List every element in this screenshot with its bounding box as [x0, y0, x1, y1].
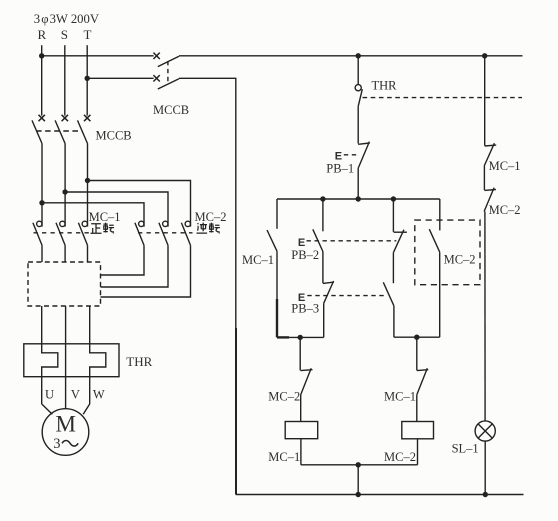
- wire lamp to bottom rail: [484, 441, 486, 494]
- wire forward branch bottom bar: [277, 336, 324, 338]
- svg-text:MC–1: MC–1: [384, 390, 416, 404]
- wire MC-2 pole3 down and left to swap box: [101, 245, 191, 297]
- wire to MC-1 interlock: [416, 337, 418, 370]
- svg-text:V: V: [71, 388, 80, 402]
- label seiten (forward) kanji: [91, 223, 115, 234]
- contactor MC-1 pole1 terminal circle: [37, 221, 42, 226]
- wire phase S drop: [64, 45, 66, 115]
- contactor MC-1 interlock b-contact bar: [417, 369, 429, 372]
- contactor MC-2 interlock b-contact bar: [300, 369, 312, 372]
- breaker MCCB2 pole 2 blade: [158, 79, 179, 89]
- contactor MC-2 aux enclosure (dashed box): [415, 220, 480, 285]
- contactor MC-2 b-contact bar (lamp branch): [484, 189, 496, 192]
- node reverse bottom bar: [414, 335, 419, 340]
- contactor MC-1 pole3 terminal circle: [82, 221, 87, 226]
- breaker MCCB1 pole R blade: [32, 120, 42, 143]
- breaker MCCB2 mechanical link (dashed): [167, 61, 169, 84]
- coil MC-1: [285, 422, 318, 439]
- node coil junction: [356, 462, 361, 467]
- svg-text:T: T: [84, 27, 92, 42]
- svg-text:R: R: [38, 27, 47, 42]
- lamp cross stroke 2: [478, 424, 492, 438]
- svg-text:3: 3: [53, 436, 60, 452]
- wire coil junction to bottom rail: [357, 465, 359, 495]
- svg-text:MC–1: MC–1: [242, 253, 274, 267]
- wire PB-1 to parallel rail: [357, 168, 359, 200]
- contactor MC-2 b-contact blade (lamp branch): [484, 188, 494, 212]
- wire coil MC-2 to junction bar: [417, 439, 419, 465]
- breaker MCCB1 pole S blade: [55, 120, 65, 143]
- motor AC wave symbol: [62, 441, 78, 447]
- svg-text:MC–1: MC–1: [489, 159, 521, 173]
- svg-text:PB–2: PB–2: [291, 248, 319, 262]
- wire R MCCB1 to MC-1 pole1: [41, 144, 43, 227]
- svg-text:MC–2: MC–2: [384, 450, 416, 464]
- wire PB-2 b to PB-3 a: [392, 253, 394, 284]
- svg-text:E: E: [335, 150, 342, 162]
- THR b-contact blade: [358, 89, 362, 106]
- svg-text:MCCB: MCCB: [96, 129, 132, 143]
- contactor MC-1 mechanical link (dashed): [34, 232, 90, 234]
- wire bottom rail: [236, 494, 524, 496]
- wire rail down to MC-1 aux contact: [276, 199, 278, 229]
- wire W lead into motor: [83, 404, 90, 414]
- contactor MC-1 pole3 blade: [78, 223, 87, 246]
- svg-text:MC–2: MC–2: [444, 253, 476, 267]
- svg-text:W: W: [93, 388, 105, 402]
- phase swap junction box (dashed): [28, 262, 101, 306]
- wire MC-1 pole2 down to swap box: [64, 245, 66, 262]
- wire T to MC-2 pole3: [88, 181, 191, 227]
- contactor MC-1 pole1 blade: [33, 223, 42, 246]
- breaker MCCB1 pole T terminal x: [84, 115, 90, 121]
- wire PB-3 a to reverse bottom bar: [393, 306, 395, 337]
- svg-text:U: U: [45, 388, 54, 402]
- breaker MCCB2 pole 2 terminal x: [153, 75, 159, 81]
- wire lamp branch upper: [484, 56, 486, 146]
- pushbutton PB-3 blade: [324, 281, 334, 303]
- wire lamp branch to lamp: [484, 212, 486, 421]
- wire MC-1 pole3 down to swap box: [87, 245, 89, 262]
- breaker MCCB2 pole 1 terminal x: [153, 53, 159, 59]
- svg-text:3 φ 3W 200V: 3 φ 3W 200V: [34, 12, 100, 26]
- svg-text:MC–2: MC–2: [489, 203, 521, 217]
- wire center drop lower (bold): [235, 328, 237, 495]
- wire rail down to PB-2: [322, 199, 324, 231]
- svg-text:PB–1: PB–1: [326, 162, 354, 176]
- wire S MCCB1 to MC-1 pole2: [64, 144, 66, 227]
- wire MC-2 pole2 down and left to swap box: [101, 245, 169, 287]
- wire MC-1 aux lower (bold) to bottom bar: [276, 299, 278, 337]
- svg-text:S: S: [61, 27, 68, 42]
- lamp cross stroke 1: [478, 424, 492, 438]
- svg-text:THR: THR: [126, 354, 152, 369]
- PB-1 button link (dashed): [344, 154, 357, 156]
- svg-text:SL–1: SL–1: [452, 442, 479, 456]
- pushbutton PB-1 blade: [359, 142, 370, 168]
- node forward bottom bar: [298, 335, 303, 340]
- pushbutton PB-1 b-contact bar: [358, 143, 370, 144]
- contactor MC-2 pole1 terminal circle: [139, 221, 144, 226]
- breaker MCCB1 pole T blade: [78, 120, 88, 143]
- pushbutton PB-3 a-contact blade (reverse branch): [383, 282, 394, 306]
- wire T MCCB1 to MC-1 pole3: [87, 144, 89, 227]
- wire forward bottom bar bold start: [277, 336, 289, 338]
- wire swap box through THR phase V: [65, 306, 67, 409]
- svg-text:PB–3: PB–3: [291, 302, 319, 316]
- node rail PB-2: [320, 196, 325, 201]
- contactor MC-2 pole2 blade: [159, 223, 168, 246]
- contactor MC-1 b-contact blade (lamp branch): [484, 143, 494, 165]
- wire R to MC-2 pole1: [42, 203, 144, 227]
- motor M 3-phase circle: [42, 409, 89, 456]
- svg-text:MC–2: MC–2: [195, 210, 227, 224]
- contactor MC-1 aux a-contact blade (self hold): [267, 230, 277, 251]
- wire phase T drop: [86, 45, 88, 115]
- wire S to MC-2 pole2: [65, 192, 168, 227]
- THR heater element U: [42, 344, 58, 404]
- contactor MC-1 b-contact bar (lamp branch): [485, 144, 497, 147]
- contactor MC-2 pole2 terminal circle: [163, 221, 168, 226]
- thermal relay THR box: [24, 344, 119, 377]
- wire reverse branch bottom bar: [394, 336, 440, 338]
- breaker MCCB1 pole S terminal x: [62, 115, 68, 121]
- contactor MC-2 pole1 blade: [135, 223, 144, 246]
- svg-text:MCCB: MCCB: [153, 103, 189, 117]
- pushbutton PB-2 a-contact blade: [313, 229, 323, 251]
- wire MC-1 pole1 down to swap box: [41, 245, 43, 262]
- wire interlock to coil MC-2: [416, 395, 418, 422]
- wire top control rail left segment: [42, 55, 154, 57]
- wire MC-2 pole1 down and left to swap box: [101, 245, 145, 275]
- svg-text:THR: THR: [372, 79, 398, 93]
- PB-2 button link (dashed): [307, 240, 397, 242]
- wire rail to THR b-contact: [357, 56, 359, 85]
- wire control L2 left segment: [87, 77, 153, 79]
- svg-text:M: M: [56, 412, 76, 437]
- PB-3 button link (dashed): [307, 295, 387, 297]
- breaker MCCB2 pole 1 blade: [158, 56, 179, 66]
- wire coil junction bar: [301, 464, 418, 466]
- contactor MC-2 interlock blade: [301, 368, 312, 395]
- wire rail down to PB-2 b-contact (reverse): [392, 199, 394, 232]
- breaker MCCB1 mechanical link (dashed): [36, 130, 82, 132]
- signal lamp SL-1: [475, 421, 495, 441]
- coil MC-2: [402, 422, 434, 439]
- svg-text:MC–1: MC–1: [89, 210, 121, 224]
- wire phase R drop: [41, 45, 43, 115]
- pushbutton PB-2 b-contact bar (reverse branch): [394, 231, 407, 233]
- contactor MC-1 pole2 terminal circle: [60, 221, 65, 226]
- svg-text:MC–2: MC–2: [268, 390, 300, 404]
- contactor MC-2 mechanical link (dashed): [138, 232, 193, 234]
- wire PB-3 to forward bottom bar: [323, 303, 325, 337]
- breaker MCCB1 pole R terminal x: [39, 115, 45, 121]
- node S branch to MC-2: [62, 189, 67, 194]
- wire interlock to coil MC-1: [300, 395, 302, 422]
- contactor MC-2 aux a-contact blade: [429, 229, 439, 252]
- wire U lead into motor: [42, 404, 53, 414]
- label gyakuten (reverse) kanji: [197, 223, 220, 234]
- contactor MC-1 pole2 blade: [56, 223, 65, 246]
- wire between lamp branch contacts: [483, 166, 485, 191]
- wire rail down to MC-2 aux (self hold): [439, 199, 441, 230]
- THR trip link (dashed): [363, 97, 523, 99]
- node top rail to THR contact branch: [356, 53, 361, 58]
- node top rail to lamp branch: [482, 53, 487, 58]
- pushbutton PB-3 b-contact bar: [323, 282, 334, 283]
- svg-text:MC–1: MC–1: [268, 450, 300, 464]
- wire swap box to THR heater U: [41, 306, 43, 344]
- node bottom rail coil junction: [356, 492, 361, 497]
- wire top control rail right segment: [179, 55, 523, 57]
- wire PB-2 to PB-3: [322, 252, 324, 284]
- node: junction R and top control rail: [39, 53, 44, 58]
- contactor MC-2 pole3 blade: [181, 223, 190, 246]
- wire MC-2 aux to reverse bottom bar: [439, 252, 441, 337]
- contactor MC-2 pole3 terminal circle: [185, 221, 190, 226]
- contactor MC-1 interlock blade: [417, 368, 428, 395]
- wire MC-1 aux upper to bottom bar: [276, 251, 278, 299]
- THR heater element W: [90, 344, 106, 404]
- wire parallel section top rail: [277, 198, 440, 200]
- wire THR contact to PB-1: [357, 106, 359, 143]
- wire control L2 to center drop: [179, 78, 236, 328]
- node: junction T and control L2: [85, 76, 90, 81]
- node R branch to MC-2: [39, 200, 44, 205]
- node rail reverse column: [391, 196, 396, 201]
- wire coil MC-1 to junction bar: [300, 439, 302, 465]
- node bottom rail lamp: [483, 492, 488, 497]
- wire swap box to THR heater W: [89, 306, 91, 344]
- node rail PB-1 feed: [356, 196, 361, 201]
- pushbutton PB-2 b-contact blade (reverse branch): [393, 230, 404, 253]
- THR b-contact terminal circle: [355, 85, 361, 91]
- node T branch to MC-2: [85, 178, 90, 183]
- wire to MC-2 interlock: [299, 337, 301, 370]
